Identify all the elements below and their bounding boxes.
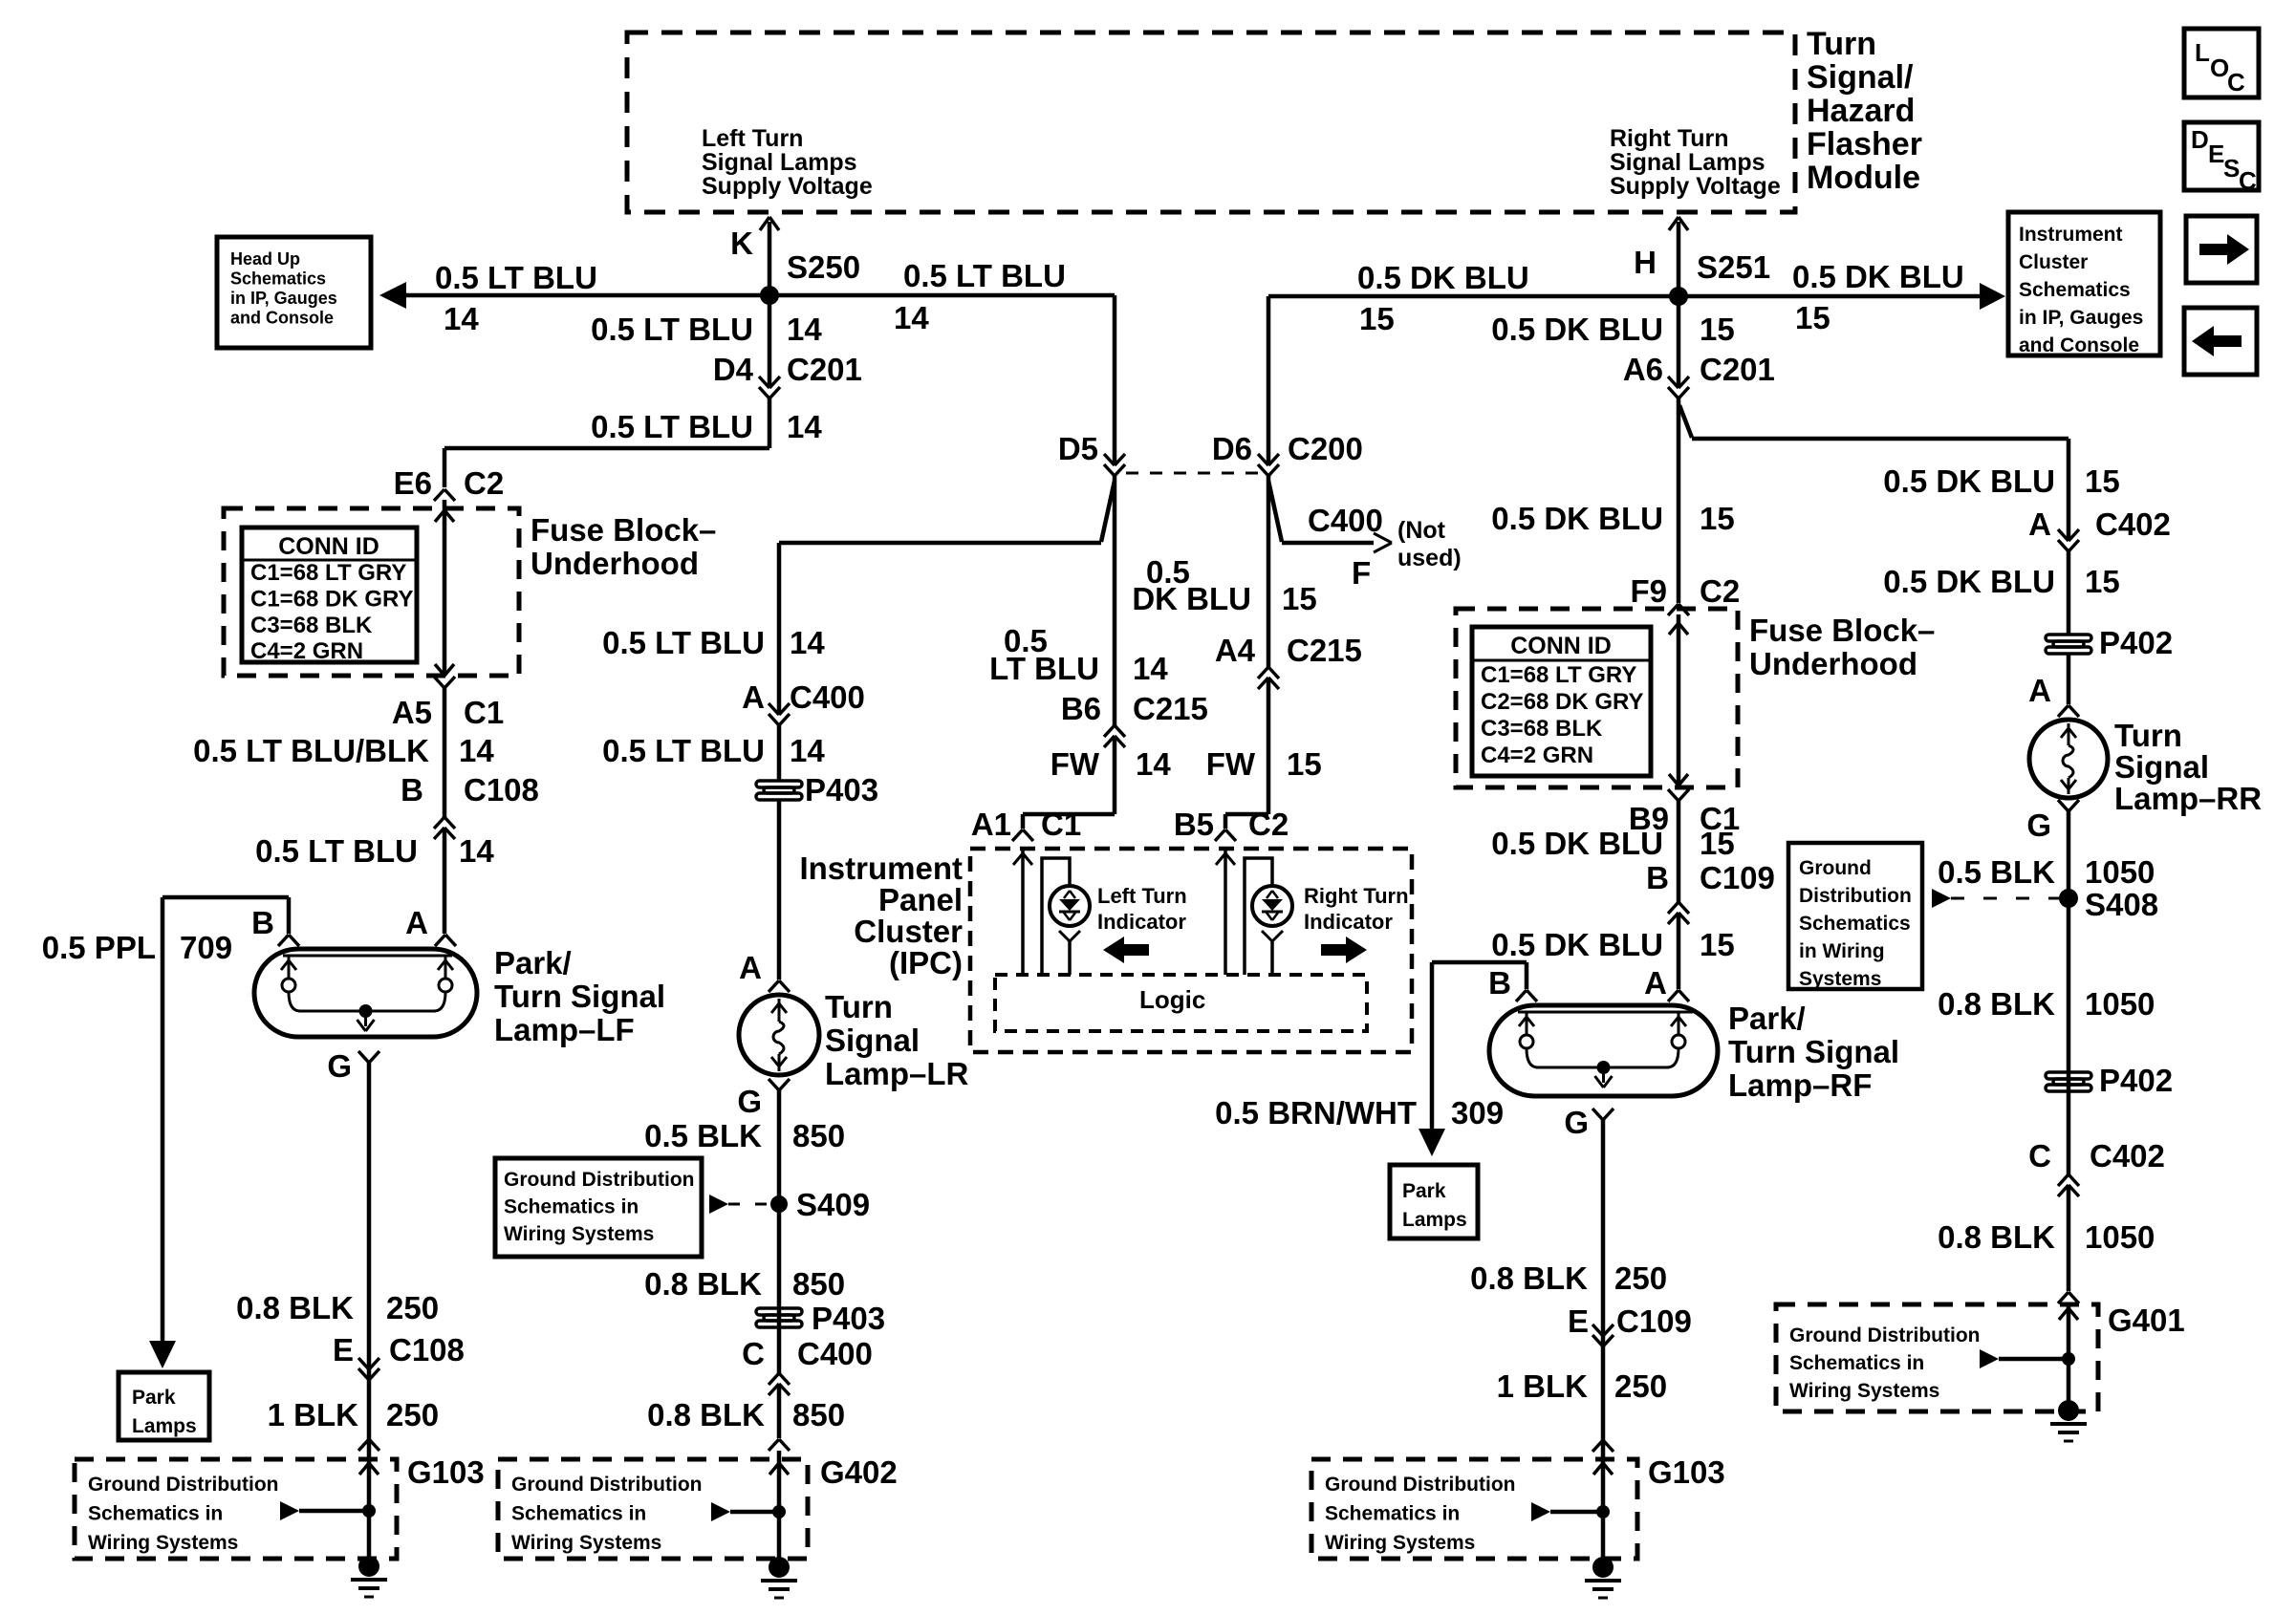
svg-text:in Wiring: in Wiring xyxy=(1799,940,1885,962)
svg-text:A4: A4 xyxy=(1215,633,1256,668)
svg-text:G402: G402 xyxy=(820,1454,898,1490)
svg-text:S250: S250 xyxy=(787,249,860,285)
svg-text:C2: C2 xyxy=(464,465,504,501)
svg-text:C1=68 LT GRY: C1=68 LT GRY xyxy=(250,560,406,586)
svg-text:Schematics in: Schematics in xyxy=(88,1503,223,1525)
svg-text:Park/: Park/ xyxy=(494,945,572,980)
svg-text:CONN ID: CONN ID xyxy=(278,533,379,560)
svg-text:Lamps: Lamps xyxy=(132,1415,197,1437)
svg-text:Schematics in: Schematics in xyxy=(511,1503,646,1525)
svg-text:0.5 DK BLU: 0.5 DK BLU xyxy=(1491,501,1663,536)
svg-text:Cluster: Cluster xyxy=(2019,251,2088,273)
svg-text:250: 250 xyxy=(1614,1368,1667,1404)
svg-text:Panel: Panel xyxy=(878,882,963,917)
svg-text:Wiring Systems: Wiring Systems xyxy=(504,1223,654,1245)
svg-text:15: 15 xyxy=(1282,581,1317,616)
svg-text:C200: C200 xyxy=(1288,431,1363,466)
svg-text:C400: C400 xyxy=(1308,503,1383,538)
svg-text:250: 250 xyxy=(386,1397,439,1432)
svg-text:0.5 DK BLU: 0.5 DK BLU xyxy=(1792,259,1964,294)
svg-text:0.5 DK BLU: 0.5 DK BLU xyxy=(1491,312,1663,347)
svg-text:C4=2 GRN: C4=2 GRN xyxy=(1481,743,1593,768)
svg-text:15: 15 xyxy=(1700,927,1735,962)
svg-text:P403: P403 xyxy=(805,772,878,807)
svg-text:14: 14 xyxy=(787,312,822,347)
svg-text:A1: A1 xyxy=(971,807,1011,842)
svg-text:C400: C400 xyxy=(790,679,865,715)
svg-text:and Console: and Console xyxy=(2019,334,2139,356)
svg-text:Lamp–LR: Lamp–LR xyxy=(825,1056,969,1091)
svg-text:Schematics in: Schematics in xyxy=(504,1196,639,1218)
svg-text:D: D xyxy=(2191,125,2209,154)
svg-text:Turn Signal: Turn Signal xyxy=(494,979,665,1014)
svg-text:1050: 1050 xyxy=(2085,854,2155,890)
svg-text:DK BLU: DK BLU xyxy=(1132,581,1251,616)
svg-text:K: K xyxy=(730,226,753,261)
svg-text:0.5 LT BLU: 0.5 LT BLU xyxy=(435,260,597,295)
svg-text:14: 14 xyxy=(894,300,929,335)
svg-text:0.5 DK BLU: 0.5 DK BLU xyxy=(1357,260,1529,295)
svg-text:Lamps: Lamps xyxy=(1402,1209,1467,1231)
svg-text:E: E xyxy=(333,1332,354,1367)
svg-text:Ground Distribution: Ground Distribution xyxy=(88,1474,278,1496)
svg-text:A6: A6 xyxy=(1623,352,1663,387)
svg-text:A: A xyxy=(405,905,428,940)
svg-text:B5: B5 xyxy=(1174,807,1214,842)
svg-text:B: B xyxy=(401,772,423,807)
svg-text:Signal: Signal xyxy=(2114,749,2209,785)
svg-text:Distribution: Distribution xyxy=(1799,885,1912,907)
svg-text:Schematics: Schematics xyxy=(230,269,326,289)
svg-text:Ground: Ground xyxy=(1799,857,1872,879)
svg-text:0.5 LT BLU: 0.5 LT BLU xyxy=(255,833,418,869)
svg-text:1 BLK: 1 BLK xyxy=(1497,1368,1589,1404)
svg-text:A: A xyxy=(742,679,765,715)
svg-text:Right Turn: Right Turn xyxy=(1304,884,1409,908)
svg-text:0.5 BLK: 0.5 BLK xyxy=(644,1118,762,1153)
svg-text:0.5 BRN/WHT: 0.5 BRN/WHT xyxy=(1215,1095,1417,1130)
svg-text:H: H xyxy=(1634,245,1657,280)
svg-text:C: C xyxy=(2239,166,2257,195)
svg-text:Flasher: Flasher xyxy=(1807,126,1922,162)
svg-text:Signal Lamps: Signal Lamps xyxy=(1610,149,1765,176)
svg-text:in IP, Gauges: in IP, Gauges xyxy=(230,289,337,308)
svg-text:0.8 BLK: 0.8 BLK xyxy=(1938,1219,2055,1255)
svg-text:Park: Park xyxy=(1402,1180,1446,1202)
svg-text:14: 14 xyxy=(790,625,825,660)
svg-text:G103: G103 xyxy=(407,1454,485,1490)
svg-text:FW: FW xyxy=(1051,746,1100,782)
svg-text:C201: C201 xyxy=(1700,352,1775,387)
svg-text:Turn Signal: Turn Signal xyxy=(1728,1034,1899,1069)
svg-text:FW: FW xyxy=(1206,746,1256,782)
svg-text:A5: A5 xyxy=(392,695,432,730)
svg-text:C201: C201 xyxy=(787,352,862,387)
svg-text:D6: D6 xyxy=(1212,431,1252,466)
svg-text:1050: 1050 xyxy=(2085,986,2155,1022)
svg-text:1 BLK: 1 BLK xyxy=(268,1397,359,1432)
svg-text:C402: C402 xyxy=(2095,506,2171,542)
svg-text:C109: C109 xyxy=(1616,1303,1692,1339)
svg-text:Logic: Logic xyxy=(1139,985,1205,1014)
svg-text:1050: 1050 xyxy=(2085,1219,2155,1255)
svg-text:709: 709 xyxy=(180,930,232,965)
svg-text:C: C xyxy=(742,1336,765,1371)
svg-text:15: 15 xyxy=(1795,300,1830,335)
svg-text:B: B xyxy=(1646,860,1669,895)
svg-text:Lamp–RF: Lamp–RF xyxy=(1728,1067,1872,1103)
svg-text:309: 309 xyxy=(1451,1095,1504,1130)
svg-text:Ground Distribution: Ground Distribution xyxy=(511,1474,702,1496)
svg-text:15: 15 xyxy=(2085,564,2120,599)
svg-text:15: 15 xyxy=(1700,501,1735,536)
svg-text:Signal/: Signal/ xyxy=(1807,59,1914,96)
svg-text:Signal Lamps: Signal Lamps xyxy=(702,149,857,176)
svg-text:F: F xyxy=(1352,555,1371,591)
svg-text:S408: S408 xyxy=(2085,887,2158,922)
svg-text:C1: C1 xyxy=(1041,807,1081,842)
svg-text:G: G xyxy=(1564,1105,1589,1140)
svg-text:0.5 DK BLU: 0.5 DK BLU xyxy=(1491,927,1663,962)
svg-text:G103: G103 xyxy=(1648,1454,1725,1490)
svg-text:0.5 LT BLU: 0.5 LT BLU xyxy=(602,625,765,660)
svg-text:E6: E6 xyxy=(394,465,432,501)
svg-text:Left Turn: Left Turn xyxy=(702,125,803,152)
svg-text:Head Up: Head Up xyxy=(230,249,300,269)
svg-text:850: 850 xyxy=(792,1118,845,1153)
svg-text:B: B xyxy=(251,905,274,940)
svg-text:used): used) xyxy=(1397,545,1462,571)
svg-text:E: E xyxy=(1568,1303,1589,1339)
svg-text:A: A xyxy=(2028,506,2051,542)
svg-text:Wiring Systems: Wiring Systems xyxy=(1789,1380,1939,1402)
svg-text:15: 15 xyxy=(1359,301,1395,336)
svg-text:C400: C400 xyxy=(797,1336,873,1371)
svg-text:Left Turn: Left Turn xyxy=(1097,884,1187,908)
svg-text:C1=68 LT GRY: C1=68 LT GRY xyxy=(1481,662,1636,688)
svg-text:Fuse Block–: Fuse Block– xyxy=(531,512,716,548)
svg-text:0.8 BLK: 0.8 BLK xyxy=(644,1266,762,1302)
svg-text:C1=68 DK GRY: C1=68 DK GRY xyxy=(250,586,414,612)
svg-text:Schematics: Schematics xyxy=(1799,913,1911,935)
svg-text:Supply Voltage: Supply Voltage xyxy=(1610,173,1781,200)
svg-text:C: C xyxy=(2227,68,2245,97)
svg-text:E: E xyxy=(2208,140,2224,168)
svg-text:0.5 DK BLU: 0.5 DK BLU xyxy=(1883,463,2055,499)
svg-text:850: 850 xyxy=(792,1266,845,1302)
svg-text:0.8 BLK: 0.8 BLK xyxy=(1938,986,2055,1022)
svg-text:D4: D4 xyxy=(713,352,754,387)
svg-text:B: B xyxy=(1488,965,1511,1001)
svg-text:Module: Module xyxy=(1807,160,1920,196)
svg-text:C3=68 BLK: C3=68 BLK xyxy=(1481,716,1603,742)
svg-text:F9: F9 xyxy=(1630,573,1667,609)
svg-text:14: 14 xyxy=(787,409,822,444)
svg-text:L: L xyxy=(2195,38,2210,67)
svg-text:(Not: (Not xyxy=(1397,517,1446,544)
svg-text:G: G xyxy=(737,1084,762,1119)
svg-text:0.5 DK BLU: 0.5 DK BLU xyxy=(1491,826,1663,861)
svg-text:14: 14 xyxy=(459,733,494,768)
svg-text:G: G xyxy=(2026,807,2051,843)
svg-text:Ground Distribution: Ground Distribution xyxy=(504,1169,694,1191)
svg-text:B6: B6 xyxy=(1061,691,1101,726)
svg-text:S251: S251 xyxy=(1697,249,1770,285)
svg-text:Indicator: Indicator xyxy=(1097,910,1186,934)
svg-text:C2: C2 xyxy=(1248,807,1289,842)
svg-text:A: A xyxy=(1644,965,1667,1001)
svg-text:C215: C215 xyxy=(1133,691,1208,726)
svg-text:Schematics in: Schematics in xyxy=(1789,1352,1924,1374)
svg-text:0.8 BLK: 0.8 BLK xyxy=(1470,1260,1588,1296)
svg-text:D5: D5 xyxy=(1058,431,1098,466)
svg-text:0.5 LT BLU: 0.5 LT BLU xyxy=(903,258,1066,293)
svg-text:Schematics in: Schematics in xyxy=(1325,1503,1460,1525)
svg-text:Turn: Turn xyxy=(2114,718,2182,753)
svg-text:CONN ID: CONN ID xyxy=(1510,633,1612,659)
svg-text:C108: C108 xyxy=(389,1332,465,1367)
svg-text:Wiring Systems: Wiring Systems xyxy=(511,1532,661,1554)
svg-text:Park/: Park/ xyxy=(1728,1001,1806,1036)
svg-text:Indicator: Indicator xyxy=(1304,910,1393,934)
svg-text:14: 14 xyxy=(1133,651,1168,686)
svg-text:Park: Park xyxy=(132,1387,176,1409)
svg-text:Fuse Block–: Fuse Block– xyxy=(1749,613,1935,648)
svg-text:C215: C215 xyxy=(1287,633,1362,668)
svg-text:in IP, Gauges: in IP, Gauges xyxy=(2019,307,2143,329)
svg-text:250: 250 xyxy=(1614,1260,1667,1296)
svg-text:Signal: Signal xyxy=(825,1023,920,1058)
svg-text:S409: S409 xyxy=(796,1187,870,1222)
svg-text:A: A xyxy=(2028,673,2051,708)
svg-text:14: 14 xyxy=(444,301,479,336)
svg-text:Ground Distribution: Ground Distribution xyxy=(1325,1474,1515,1496)
svg-text:A: A xyxy=(739,950,762,985)
svg-text:Systems: Systems xyxy=(1799,968,1881,990)
svg-text:LT BLU: LT BLU xyxy=(989,651,1099,686)
svg-text:(IPC): (IPC) xyxy=(889,945,963,980)
svg-text:and Console: and Console xyxy=(230,309,334,328)
svg-text:Supply Voltage: Supply Voltage xyxy=(702,173,873,200)
svg-text:Ground Distribution: Ground Distribution xyxy=(1789,1324,1980,1346)
svg-text:Wiring Systems: Wiring Systems xyxy=(88,1532,238,1554)
svg-text:0.5 LT BLU/BLK: 0.5 LT BLU/BLK xyxy=(193,733,429,768)
svg-text:0.5 PPL: 0.5 PPL xyxy=(42,930,156,965)
svg-text:C402: C402 xyxy=(2090,1138,2165,1174)
svg-text:0.5 LT BLU: 0.5 LT BLU xyxy=(591,409,753,444)
svg-text:Right Turn: Right Turn xyxy=(1610,125,1729,152)
svg-text:250: 250 xyxy=(386,1290,439,1325)
svg-text:0.8 BLK: 0.8 BLK xyxy=(647,1397,765,1432)
svg-text:C4=2 GRN: C4=2 GRN xyxy=(250,638,363,664)
svg-text:0.5 DK BLU: 0.5 DK BLU xyxy=(1883,564,2055,599)
svg-text:Instrument: Instrument xyxy=(799,851,963,886)
svg-text:Lamp–LF: Lamp–LF xyxy=(494,1012,635,1047)
svg-text:C2: C2 xyxy=(1700,573,1740,609)
svg-text:0.5 BLK: 0.5 BLK xyxy=(1938,854,2055,890)
svg-text:C3=68 BLK: C3=68 BLK xyxy=(250,613,373,638)
svg-text:P402: P402 xyxy=(2099,625,2173,660)
svg-text:Schematics: Schematics xyxy=(2019,279,2131,301)
svg-text:14: 14 xyxy=(1136,746,1171,782)
svg-text:Underhood: Underhood xyxy=(1749,646,1917,681)
svg-text:850: 850 xyxy=(792,1397,845,1432)
svg-text:G401: G401 xyxy=(2108,1303,2185,1338)
svg-text:Lamp–RR: Lamp–RR xyxy=(2114,781,2262,816)
svg-text:Wiring Systems: Wiring Systems xyxy=(1325,1532,1475,1554)
svg-text:S: S xyxy=(2223,154,2240,183)
svg-text:Cluster: Cluster xyxy=(854,914,963,949)
svg-text:Instrument: Instrument xyxy=(2019,224,2123,246)
svg-text:C1: C1 xyxy=(464,695,504,730)
svg-text:14: 14 xyxy=(459,833,494,869)
svg-text:G: G xyxy=(327,1048,352,1084)
svg-text:Turn: Turn xyxy=(825,989,893,1024)
svg-text:15: 15 xyxy=(2085,463,2120,499)
svg-text:P402: P402 xyxy=(2099,1063,2173,1098)
svg-text:15: 15 xyxy=(1287,746,1322,782)
svg-text:14: 14 xyxy=(790,733,825,768)
svg-text:0.8 BLK: 0.8 BLK xyxy=(236,1290,354,1325)
svg-text:Turn: Turn xyxy=(1807,26,1876,62)
svg-text:Hazard: Hazard xyxy=(1807,93,1915,129)
svg-text:Underhood: Underhood xyxy=(531,546,699,581)
svg-text:15: 15 xyxy=(1700,312,1735,347)
svg-text:C109: C109 xyxy=(1700,860,1775,895)
svg-text:0.5 LT BLU: 0.5 LT BLU xyxy=(591,312,753,347)
svg-text:15: 15 xyxy=(1700,826,1735,861)
svg-text:C: C xyxy=(2028,1138,2051,1174)
svg-text:C2=68 DK GRY: C2=68 DK GRY xyxy=(1481,689,1644,715)
svg-text:P403: P403 xyxy=(812,1301,885,1336)
svg-text:C108: C108 xyxy=(464,772,539,807)
svg-text:0.5 LT BLU: 0.5 LT BLU xyxy=(602,733,765,768)
